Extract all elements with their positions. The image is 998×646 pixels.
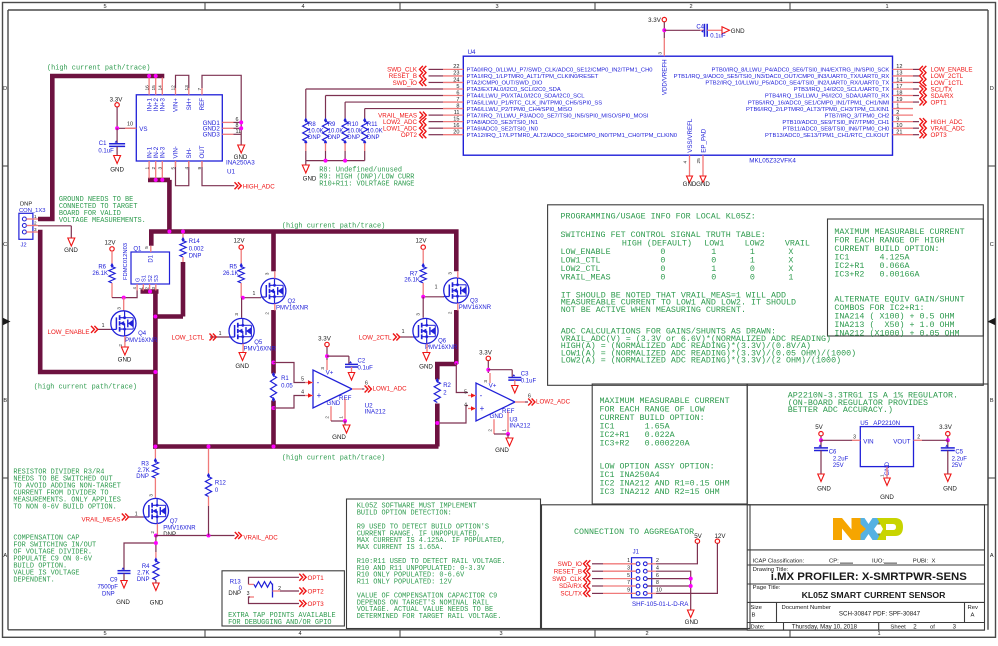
svg-text:15: 15: [151, 85, 157, 91]
svg-text:PTB6/IRQ_2/LPTMR0_ALT3/TPM0_CH: PTB6/IRQ_2/LPTMR0_ALT3/TPM0_CH3/TPM_CLKI…: [746, 107, 889, 113]
svg-text:PTB2/IRQ_10/LLWU_P5/ADC0_SE4/T: PTB2/IRQ_10/LLWU_P5/ADC0_SE4/TSI0_IN2/UA…: [705, 81, 889, 87]
svg-text:1: 1: [402, 329, 405, 335]
svg-text:3: 3: [320, 367, 325, 370]
svg-text:1: 1: [253, 291, 256, 297]
svg-text:A: A: [3, 553, 7, 559]
svg-text:C5: C5: [955, 450, 963, 456]
svg-text:GND: GND: [235, 363, 249, 370]
svg-text:SWD_IO: SWD_IO: [558, 561, 583, 568]
svg-text:10.0K: 10.0K: [347, 129, 363, 135]
svg-text:R14: R14: [189, 239, 201, 245]
svg-text:IUO:: IUO:: [872, 558, 884, 564]
svg-text:1: 1: [102, 323, 105, 329]
svg-text:D1: D1: [149, 254, 155, 262]
svg-text:-: -: [480, 391, 483, 400]
svg-text:(high current path/trace): (high current path/trace): [47, 65, 150, 73]
svg-text:1: 1: [435, 285, 438, 291]
svg-text:3: 3: [34, 227, 37, 232]
svg-text:PTA0/IRQ_0/LLWU_P7/SWD_CLK/ADC: PTA0/IRQ_0/LLWU_P7/SWD_CLK/ADC0_SE12/CMP…: [467, 68, 653, 74]
svg-text:VS: VS: [139, 126, 147, 133]
svg-text:U5 AP2210N: U5 AP2210N: [860, 420, 900, 427]
svg-text:C6: C6: [829, 450, 837, 456]
svg-text:4: 4: [301, 390, 304, 396]
svg-text:SH+: SH+: [186, 98, 193, 111]
svg-text:25V: 25V: [833, 463, 844, 469]
svg-text:HIGH_ADC: HIGH_ADC: [243, 184, 276, 191]
svg-text:DNP: DNP: [347, 135, 360, 141]
svg-text:FOR DEBUGGING AND/OR GPIO: FOR DEBUGGING AND/OR GPIO: [228, 619, 331, 627]
svg-text:MKL05Z32VFK4: MKL05Z32VFK4: [749, 158, 796, 165]
svg-text:2.2uF: 2.2uF: [952, 457, 968, 463]
svg-text:GND: GND: [303, 175, 317, 182]
svg-text:3: 3: [627, 565, 630, 571]
svg-text:C4: C4: [696, 24, 704, 30]
svg-text:4: 4: [298, 631, 301, 637]
svg-text:PTA4/LLWU_P0/XTAL0/I2C0_SDA/I2: PTA4/LLWU_P0/XTAL0/I2C0_SDA/I2C0_SCL: [467, 94, 586, 100]
svg-text:GND3: GND3: [203, 132, 221, 139]
svg-text:+: +: [317, 391, 322, 400]
svg-text:3.3V: 3.3V: [318, 336, 332, 343]
svg-text:19: 19: [896, 97, 902, 103]
svg-text:9: 9: [896, 116, 899, 122]
svg-text:DETERMINED FOR TARGET RAIL VOL: DETERMINED FOR TARGET RAIL VOLTAGE.: [357, 613, 502, 621]
svg-text:6: 6: [456, 90, 459, 96]
svg-text:1: 1: [627, 558, 630, 564]
svg-text:PTB3/IRQ_14/I2C0_SCL/UART0_TX: PTB3/IRQ_14/I2C0_SCL/UART0_TX: [794, 87, 890, 93]
svg-text:13: 13: [896, 71, 902, 77]
svg-text:G: G: [135, 278, 141, 282]
svg-text:7: 7: [197, 88, 203, 91]
svg-text:2: 2: [151, 166, 157, 169]
svg-text:U1: U1: [227, 169, 236, 176]
svg-text:C: C: [990, 242, 994, 248]
svg-text:PMV16XNR: PMV16XNR: [425, 345, 458, 351]
svg-text:10: 10: [656, 588, 662, 594]
svg-text:R11 ONLY POPULATED: 12V: R11 ONLY POPULATED: 12V: [357, 579, 453, 587]
svg-text:SDA/RX: SDA/RX: [559, 583, 582, 590]
svg-text:3: 3: [265, 272, 270, 275]
svg-text:0.1uF: 0.1uF: [710, 33, 726, 39]
svg-text:R3: R3: [141, 461, 149, 467]
svg-text:VSS/VREFL: VSS/VREFL: [687, 118, 694, 153]
svg-text:OPT2: OPT2: [308, 589, 325, 596]
svg-text:INA212: INA212: [365, 409, 387, 416]
svg-text:SWD_IO: SWD_IO: [393, 80, 418, 87]
svg-text:1: 1: [135, 512, 138, 518]
svg-text:LOW1_ADC: LOW1_ADC: [373, 386, 408, 393]
svg-text:3: 3: [416, 313, 421, 316]
svg-text:PROGRAMMING/USAGE INFO FOR LOC: PROGRAMMING/USAGE INFO FOR LOCAL KL05Z:: [561, 212, 756, 222]
svg-text:-: -: [317, 378, 320, 387]
svg-text:3: 3: [247, 591, 250, 597]
svg-text:PTA3/EXTAL0/I2C0_SCL/I2C0_SDA: PTA3/EXTAL0/I2C0_SCL/I2C0_SDA: [467, 87, 561, 93]
svg-text:S1: S1: [142, 275, 148, 282]
svg-text:7: 7: [627, 580, 630, 586]
svg-text:(high current path/trace): (high current path/trace): [34, 383, 137, 391]
svg-text:PTB7/IRQ_3/TPM0_CH2: PTB7/IRQ_3/TPM0_CH2: [825, 113, 890, 119]
svg-text:NOT BE ACTIVE WHEN MEASURING C: NOT BE ACTIVE WHEN MEASURING CURRENT.: [561, 305, 746, 315]
svg-text:R10: R10: [347, 122, 359, 128]
svg-text:5: 5: [103, 4, 106, 10]
svg-text:V+: V+: [326, 370, 334, 377]
svg-text:U4: U4: [468, 49, 477, 56]
svg-text:(high current path/trace): (high current path/trace): [282, 454, 385, 462]
svg-text:B: B: [752, 612, 756, 618]
svg-text:0.1uF: 0.1uF: [521, 378, 537, 384]
svg-text:1: 1: [885, 4, 888, 10]
svg-text:2: 2: [118, 344, 123, 347]
svg-text:18: 18: [896, 90, 902, 96]
svg-text:SWD_CLK: SWD_CLK: [552, 576, 583, 583]
svg-text:D: D: [990, 86, 994, 92]
svg-text:12: 12: [896, 64, 902, 70]
svg-text:Date:: Date:: [751, 624, 765, 630]
svg-text:LOW2_ADC: LOW2_ADC: [536, 399, 571, 406]
svg-text:B: B: [3, 398, 7, 404]
svg-text:17: 17: [896, 84, 902, 90]
svg-text:12V: 12V: [233, 238, 245, 245]
svg-text:GND: GND: [490, 413, 504, 420]
svg-text:MAX CURRENT IS 1.65A.: MAX CURRENT IS 1.65A.: [357, 544, 444, 552]
svg-text:14: 14: [896, 77, 902, 83]
svg-text:TO NON 0-6V BUILD OPTION.: TO NON 0-6V BUILD OPTION.: [13, 504, 116, 512]
svg-text:0.05: 0.05: [281, 383, 293, 389]
svg-text:VRAIL_ADC: VRAIL_ADC: [243, 535, 278, 542]
svg-text:16: 16: [144, 85, 150, 91]
svg-text:5: 5: [456, 84, 459, 90]
svg-text:1: 1: [502, 429, 507, 432]
svg-text:23: 23: [453, 71, 459, 77]
svg-text:5: 5: [171, 166, 177, 169]
svg-text:0: 0: [750, 272, 755, 282]
svg-text:3: 3: [853, 434, 856, 440]
svg-text:VIN-: VIN-: [173, 146, 180, 158]
svg-text:5V: 5V: [815, 424, 823, 431]
svg-text:VOUT: VOUT: [893, 439, 910, 446]
svg-text:R6: R6: [98, 264, 106, 270]
svg-text:IC3+R2 0.000220A: IC3+R2 0.000220A: [600, 438, 690, 448]
svg-text:PTA5/LLWU_P1/RTC_CLK_IN/TPM0_C: PTA5/LLWU_P1/RTC_CLK_IN/TPM0_CH5/SPI0_SS: [467, 100, 603, 106]
svg-text:ICAP Classification:: ICAP Classification:: [753, 558, 805, 564]
svg-text:R10+R11: VOLRTAGE RANGE: R10+R11: VOLRTAGE RANGE: [319, 180, 414, 188]
svg-text:12V: 12V: [714, 533, 726, 540]
svg-text:C9: C9: [110, 577, 118, 583]
svg-text:KL05Z SMART CURRENT SENSOR: KL05Z SMART CURRENT SENSOR: [802, 590, 947, 600]
svg-text:SH-: SH-: [186, 148, 193, 159]
svg-text:PMV16XNR: PMV16XNR: [163, 526, 196, 532]
svg-text:Page Title:: Page Title:: [753, 585, 781, 591]
svg-text:PTB4/IRQ_15/LLWU_P6/I2C0_SDA/U: PTB4/IRQ_15/LLWU_P6/I2C0_SDA/UART0_RX: [765, 94, 890, 100]
svg-text:CONNECTION TO AGGREGATOR: CONNECTION TO AGGREGATOR: [574, 527, 694, 537]
svg-text:3: 3: [499, 631, 502, 637]
svg-text:21: 21: [896, 130, 902, 136]
svg-text:4: 4: [464, 403, 467, 409]
svg-text:R5: R5: [229, 264, 237, 270]
svg-text:20: 20: [453, 130, 459, 136]
svg-text:Q6: Q6: [438, 339, 447, 345]
svg-text:Thursday, May 10, 2018: Thursday, May 10, 2018: [792, 623, 858, 630]
svg-text:PTA2/CMP0_OUT/SWD_DIO: PTA2/CMP0_OUT/SWD_DIO: [467, 81, 543, 87]
svg-text:BUILD OPTION DETECTION:: BUILD OPTION DETECTION:: [357, 510, 452, 518]
svg-text:R8: R8: [308, 122, 316, 128]
svg-text:GND: GND: [116, 599, 130, 606]
svg-text:+: +: [480, 404, 485, 413]
svg-text:PTA12/IRQ_17/LPTMR0_ALT2/ADC0_: PTA12/IRQ_17/LPTMR0_ALT2/ADC0_SE0/CMP0_I…: [467, 133, 678, 139]
svg-text:EP_PAD: EP_PAD: [701, 128, 708, 152]
svg-text:2: 2: [150, 531, 155, 534]
svg-text:Q3: Q3: [470, 298, 479, 304]
svg-text:C2: C2: [358, 358, 366, 364]
svg-text:PTA6/LLWU_P2/TPM0_CH4/SPI0_MIS: PTA6/LLWU_P2/TPM0_CH4/SPI0_MISO: [467, 107, 573, 113]
svg-text:GND: GND: [731, 28, 745, 35]
svg-text:GND: GND: [118, 357, 132, 364]
svg-text:A: A: [971, 612, 975, 618]
svg-text:3.3V: 3.3V: [648, 17, 662, 24]
svg-text:HIGH (DEFAULT): HIGH (DEFAULT): [622, 238, 692, 248]
svg-text:4: 4: [301, 4, 304, 10]
svg-text:DNP: DNP: [102, 591, 115, 597]
svg-text:C3: C3: [521, 371, 529, 377]
svg-text:2: 2: [917, 434, 920, 440]
svg-text:B: B: [990, 398, 994, 404]
svg-text:24: 24: [453, 77, 459, 83]
svg-text:4: 4: [184, 166, 190, 169]
svg-text:IN+3: IN+3: [160, 97, 167, 111]
svg-text:A: A: [990, 553, 994, 559]
svg-text:0.002: 0.002: [189, 246, 205, 252]
svg-text:DEPENDENT.: DEPENDENT.: [13, 577, 54, 585]
svg-text:VIN: VIN: [863, 439, 873, 446]
svg-text:SCH-30847 PDF: SPF-30847: SCH-30847 PDF: SPF-30847: [839, 610, 921, 617]
svg-text:D: D: [3, 86, 7, 92]
svg-text:9: 9: [627, 588, 630, 594]
svg-text:2: 2: [896, 110, 899, 116]
svg-text:LOW_1CTL: LOW_1CTL: [172, 334, 205, 341]
svg-text:3: 3: [148, 494, 153, 497]
svg-text:PTB5/IRQ_16/ADC0_SE1/CMP0_IN1/: PTB5/IRQ_16/ADC0_SE1/CMP0_IN1/TPM1_CH1/N…: [748, 100, 890, 106]
svg-text:GND: GND: [685, 619, 699, 626]
svg-text:0.1uF: 0.1uF: [358, 365, 374, 371]
svg-text:Size: Size: [751, 605, 763, 611]
svg-text:3.3V: 3.3V: [479, 349, 493, 356]
svg-text:J2: J2: [21, 243, 27, 249]
svg-text:VRAIL_MEAS: VRAIL_MEAS: [82, 516, 121, 523]
svg-text:IN-3: IN-3: [160, 146, 167, 158]
svg-text:GND: GND: [327, 400, 341, 407]
svg-text:CP:: CP:: [829, 558, 839, 564]
svg-text:S2: S2: [148, 275, 154, 282]
svg-text:3: 3: [234, 313, 239, 316]
svg-text:OPT1: OPT1: [931, 99, 948, 106]
svg-text:i.MX PROFILER: X-SMRTPWR-SENS: i.MX PROFILER: X-SMRTPWR-SENS: [771, 571, 968, 583]
svg-text:R1: R1: [281, 376, 289, 382]
svg-text:PMV16XNR: PMV16XNR: [459, 305, 492, 311]
svg-text:25: 25: [696, 158, 702, 164]
svg-text:GND: GND: [234, 154, 248, 161]
svg-text:R4: R4: [142, 564, 150, 570]
svg-text:12V: 12V: [415, 238, 427, 245]
svg-text:1: 1: [896, 103, 899, 109]
svg-text:6: 6: [656, 573, 659, 579]
svg-text:OUT: OUT: [199, 145, 206, 158]
svg-text:R7: R7: [410, 272, 418, 278]
svg-text:7500pF: 7500pF: [98, 584, 119, 590]
svg-text:5: 5: [301, 377, 304, 383]
svg-text:PTA8/ADC0_SE3/TSI0_IN1: PTA8/ADC0_SE3/TSI0_IN1: [467, 120, 538, 126]
svg-text:DNP: DNP: [136, 474, 149, 480]
svg-text:C1: C1: [99, 141, 107, 147]
svg-text:Q5: Q5: [254, 340, 263, 346]
svg-text:GND: GND: [943, 486, 957, 493]
svg-text:2: 2: [265, 312, 270, 315]
svg-text:Q1: Q1: [133, 247, 142, 253]
svg-text:2: 2: [34, 220, 37, 225]
svg-text:1: 1: [877, 631, 880, 637]
svg-text:16: 16: [453, 123, 459, 129]
svg-text:GND: GND: [150, 600, 164, 607]
svg-text:1: 1: [219, 331, 222, 337]
svg-text:OPT2: OPT2: [401, 132, 418, 139]
svg-text:DNP: DNP: [328, 135, 341, 141]
svg-text:REF: REF: [199, 98, 206, 111]
svg-text:RESET_B: RESET_B: [554, 568, 582, 575]
svg-text:13: 13: [184, 85, 190, 91]
svg-text:LOW_2CTL: LOW_2CTL: [359, 334, 392, 341]
svg-text:PMV16XNR: PMV16XNR: [125, 338, 158, 344]
svg-text:SCL/TX: SCL/TX: [560, 591, 582, 598]
svg-text:10.0K: 10.0K: [328, 129, 344, 135]
svg-text:3: 3: [495, 4, 498, 10]
svg-text:DNP: DNP: [189, 253, 202, 259]
svg-text:9: 9: [197, 166, 203, 169]
svg-text:Q2: Q2: [288, 299, 297, 305]
svg-text:8: 8: [456, 103, 459, 109]
svg-text:5: 5: [464, 390, 467, 396]
svg-text:INA212 (X1000) + 0.05 OHM: INA212 (X1000) + 0.05 OHM: [834, 329, 959, 339]
svg-text:2: 2: [488, 429, 493, 432]
svg-text:PMV16XNR: PMV16XNR: [276, 306, 309, 312]
svg-text:BETTER ADC ACCURACY.): BETTER ADC ACCURACY.): [788, 405, 893, 415]
svg-text:PUBI: X: PUBI: X: [913, 558, 936, 564]
svg-text:2: 2: [278, 586, 281, 592]
svg-text:3.3V: 3.3V: [110, 96, 124, 103]
svg-text:3.3V: 3.3V: [939, 424, 953, 431]
svg-text:VIN+: VIN+: [173, 98, 180, 112]
svg-text:14: 14: [158, 85, 164, 91]
svg-text:(high current path/trace): (high current path/trace): [282, 222, 385, 230]
svg-text:GND: GND: [110, 167, 124, 174]
svg-text:11: 11: [454, 110, 460, 116]
svg-text:5: 5: [103, 631, 106, 637]
svg-text:PTB0/IRQ_8/LLWU_P4/ADC0_SE6/TS: PTB0/IRQ_8/LLWU_P4/ADC0_SE6/TSI0_IN4/EXT…: [712, 68, 890, 74]
svg-text:S3: S3: [154, 275, 160, 282]
svg-text:3: 3: [448, 272, 453, 275]
svg-text:10: 10: [127, 121, 133, 127]
svg-text:PMV16XNR: PMV16XNR: [244, 347, 277, 353]
svg-text:GND: GND: [419, 363, 433, 370]
svg-text:OPT3: OPT3: [308, 601, 325, 608]
svg-text:12V: 12V: [104, 239, 116, 246]
svg-text:10.0K: 10.0K: [308, 129, 324, 135]
svg-text:GND: GND: [817, 486, 831, 493]
svg-text:OPT1: OPT1: [308, 575, 325, 582]
svg-text:R2: R2: [443, 383, 451, 389]
svg-text:GND: GND: [696, 181, 710, 188]
svg-text:INA212: INA212: [509, 423, 531, 430]
svg-text:4: 4: [656, 565, 659, 571]
svg-text:26.1K: 26.1K: [404, 278, 420, 284]
svg-text:Q7: Q7: [170, 519, 179, 525]
svg-text:15: 15: [453, 116, 459, 122]
svg-text:1: 1: [144, 166, 150, 169]
svg-text:Sheet: Sheet: [890, 624, 906, 630]
svg-text:1: 1: [34, 214, 37, 219]
svg-text:12: 12: [171, 85, 177, 91]
svg-text:C: C: [3, 242, 7, 248]
svg-text:2.2uF: 2.2uF: [833, 457, 849, 463]
svg-text:GND: GND: [880, 494, 894, 501]
svg-text:DNP: DNP: [20, 202, 32, 208]
svg-text:PTB1/IRQ_9/ADC0_SE5/TSI0_IN3/D: PTB1/IRQ_9/ADC0_SE5/TSI0_IN3/DAC0_OUT/CM…: [674, 74, 890, 80]
svg-text:5: 5: [627, 573, 630, 579]
svg-text:of: of: [930, 624, 935, 630]
svg-text:0: 0: [711, 272, 716, 282]
svg-text:DNP: DNP: [137, 577, 150, 583]
svg-text:IC3+R2 0.00166A: IC3+R2 0.00166A: [834, 269, 919, 279]
svg-text:7: 7: [456, 97, 459, 103]
svg-text:PTB11/ADC0_SE8/TSI0_IN6/TPM0_C: PTB11/ADC0_SE8/TSI0_IN6/TPM0_CH0: [783, 126, 890, 132]
svg-text:Rev: Rev: [968, 605, 979, 611]
svg-text:Document Number: Document Number: [782, 605, 831, 611]
svg-text:26.1K: 26.1K: [92, 271, 108, 277]
svg-text:LOW2(A) = (NORMALIZED ADC READ: LOW2(A) = (NORMALIZED ADC READING)*(3.3V…: [561, 356, 841, 366]
svg-text:2.7K: 2.7K: [137, 468, 149, 474]
svg-text:R12: R12: [215, 481, 227, 487]
svg-text:1: 1: [880, 474, 885, 477]
svg-text:PTA1/IRQ_1/LPTMR0_ALT1/TPM_CLK: PTA1/IRQ_1/LPTMR0_ALT1/TPM_CLKIN0/RESET: [467, 74, 599, 80]
svg-text:2: 2: [656, 558, 659, 564]
svg-text:GND: GND: [64, 247, 78, 254]
svg-text:2: 2: [448, 311, 453, 314]
svg-text:DNP: DNP: [308, 135, 321, 141]
svg-text:3: 3: [158, 166, 164, 169]
svg-text:8: 8: [656, 580, 659, 586]
svg-text:1: 1: [339, 416, 344, 419]
svg-text:FDMC012N03: FDMC012N03: [123, 243, 129, 280]
svg-text:R11: R11: [367, 122, 378, 128]
svg-text:2: 2: [645, 631, 648, 637]
svg-text:DNP: DNP: [228, 591, 241, 597]
svg-text:GND: GND: [332, 434, 346, 441]
svg-text:2: 2: [689, 4, 692, 10]
svg-text:Q4: Q4: [138, 331, 147, 337]
svg-text:IC3 INA212 AND R2=15 OHM: IC3 INA212 AND R2=15 OHM: [600, 487, 720, 497]
svg-text:VRAIL_MEAS: VRAIL_MEAS: [561, 272, 611, 282]
svg-text:2.7K: 2.7K: [137, 571, 149, 577]
svg-text:26.1K: 26.1K: [223, 271, 239, 277]
svg-text:3: 3: [658, 52, 664, 55]
svg-text:PTB13/ADC0_SE13/TPM1_CH1/RTC_C: PTB13/ADC0_SE13/TPM1_CH1/RTC_CLKOUT: [765, 133, 890, 139]
svg-text:SHF-105-01-L-D-RA: SHF-105-01-L-D-RA: [632, 601, 689, 608]
svg-text:PTA7/IRQ_7/LLWU_P3/ADC0_SE7/TS: PTA7/IRQ_7/LLWU_P3/ADC0_SE7/TSI0_IN5/SPI…: [467, 113, 649, 119]
svg-text:2: 2: [325, 416, 330, 419]
svg-text:10.0K: 10.0K: [367, 129, 383, 135]
svg-text:3: 3: [117, 307, 122, 310]
svg-text:PTB10/ADC0_SE9/TSI0_IN7/TPM0_C: PTB10/ADC0_SE9/TSI0_IN7/TPM0_CH1: [782, 120, 889, 126]
svg-text:V+: V+: [489, 383, 497, 390]
svg-text:VDD/VREFH: VDD/VREFH: [662, 59, 669, 95]
svg-text:GND: GND: [495, 447, 509, 454]
